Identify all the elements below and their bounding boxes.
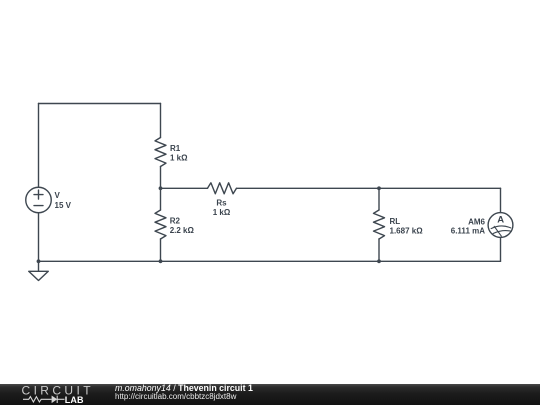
svg-text:1.687 kΩ: 1.687 kΩ: [390, 226, 424, 235]
svg-text:RL: RL: [390, 217, 401, 226]
svg-text:1 kΩ: 1 kΩ: [170, 154, 188, 163]
svg-text:6.111 mA: 6.111 mA: [451, 227, 485, 236]
svg-text:R2: R2: [170, 217, 181, 226]
svg-text:Rs: Rs: [216, 198, 227, 207]
svg-text:R1: R1: [170, 144, 181, 153]
svg-text:1 kΩ: 1 kΩ: [213, 208, 231, 217]
svg-text:2.2 kΩ: 2.2 kΩ: [170, 226, 195, 235]
svg-text:LAB: LAB: [65, 395, 84, 405]
svg-text:AM6: AM6: [468, 218, 485, 227]
svg-text:A: A: [497, 215, 504, 226]
